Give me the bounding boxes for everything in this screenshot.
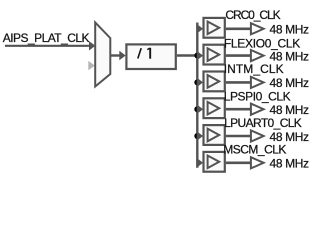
clock gate G2 buffer triangle bbox=[208, 48, 220, 61]
svg-text:48 MHz: 48 MHz bbox=[270, 157, 310, 171]
clock gate G5 box bbox=[204, 125, 225, 145]
clock gate G5 buffer triangle bbox=[208, 129, 220, 142]
arrowhead into gate G1 bbox=[197, 24, 203, 34]
clock gate G4 box bbox=[204, 98, 225, 118]
svg-text:48 MHz: 48 MHz bbox=[270, 76, 310, 90]
mux input arrowhead pin 1 (unconnected, gray) bbox=[88, 61, 95, 70]
wire vertical bus bbox=[196, 23, 198, 168]
svg-text:AIPS_PLAT_CLK: AIPS_PLAT_CLK bbox=[3, 31, 90, 45]
clock gate G3 buffer triangle bbox=[208, 75, 220, 88]
arrowhead into gate G6 bbox=[197, 158, 203, 168]
clock gate G1 buffer triangle bbox=[208, 22, 220, 35]
arrowhead into gate G3 bbox=[197, 78, 203, 88]
junction dot row3 bbox=[194, 79, 200, 85]
arrowhead into divider bbox=[119, 51, 125, 61]
svg-text:LPUART0_CLK: LPUART0_CLK bbox=[224, 116, 302, 130]
clock gate G6 box bbox=[204, 152, 225, 172]
svg-text:CRC0_CLK: CRC0_CLK bbox=[225, 8, 280, 22]
arrowhead into gate G4 bbox=[197, 104, 203, 114]
wire gate G6 output bbox=[226, 162, 251, 165]
svg-text:48 MHz: 48 MHz bbox=[270, 103, 310, 117]
clock gate G6 buffer triangle bbox=[208, 156, 220, 169]
arrowhead into gate G2 bbox=[197, 51, 203, 61]
divider value label / 1 bbox=[138, 48, 150, 59]
wire mux output bbox=[110, 54, 120, 56]
junction dot row4 bbox=[194, 106, 200, 112]
mux input arrowhead pin 0 bbox=[89, 41, 95, 50]
wire gate G1 output bbox=[226, 27, 251, 30]
wire gate G5 output bbox=[226, 135, 251, 138]
open arrowhead G4 output bbox=[251, 104, 264, 115]
svg-text:LPSPI0_CLK: LPSPI0_CLK bbox=[224, 90, 291, 104]
clock gate G4 buffer triangle bbox=[208, 102, 220, 115]
arrowhead into gate G5 bbox=[197, 131, 203, 141]
mux U1 bbox=[95, 22, 110, 86]
svg-text:MSCM_CLK: MSCM_CLK bbox=[223, 142, 286, 156]
wire gate G4 output bbox=[226, 108, 251, 111]
wire gate G3 output bbox=[226, 81, 251, 84]
clock gate G2 box bbox=[204, 45, 225, 65]
open arrowhead G5 output bbox=[251, 130, 264, 141]
divider U2 box bbox=[126, 44, 175, 69]
wire AIPS_PLAT_CLK to mux bbox=[5, 45, 93, 47]
junction dot row5 bbox=[194, 133, 200, 139]
wire divider to bus bbox=[177, 54, 199, 56]
svg-text:INTM_CLK: INTM_CLK bbox=[224, 62, 284, 76]
open arrowhead G6 output bbox=[251, 157, 264, 168]
open arrowhead G1 output bbox=[251, 23, 264, 34]
open arrowhead G2 output bbox=[251, 50, 264, 61]
wire gate G2 output bbox=[226, 54, 251, 57]
junction dot row2 bbox=[194, 53, 200, 59]
clock gate G3 box bbox=[204, 72, 225, 92]
open arrowhead G3 output bbox=[251, 77, 264, 88]
clock gate G1 box bbox=[204, 18, 225, 38]
svg-text:48 MHz: 48 MHz bbox=[270, 23, 310, 37]
